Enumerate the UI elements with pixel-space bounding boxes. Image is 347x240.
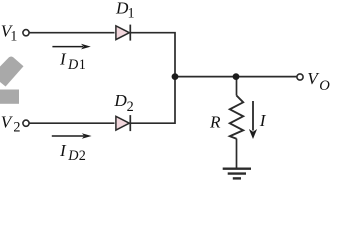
svg-text:1: 1: [10, 28, 17, 44]
svg-text:R: R: [209, 113, 221, 132]
svg-text:I: I: [259, 111, 267, 130]
svg-text:I: I: [59, 141, 67, 160]
svg-text:2: 2: [79, 148, 86, 164]
svg-text:D: D: [67, 148, 79, 164]
svg-text:I: I: [59, 50, 67, 69]
svg-text:1: 1: [79, 57, 86, 73]
svg-text:2: 2: [127, 99, 134, 115]
svg-text:1: 1: [128, 5, 135, 21]
svg-text:O: O: [319, 78, 330, 94]
svg-text:2: 2: [13, 119, 20, 135]
svg-text:D: D: [113, 91, 127, 110]
svg-text:V: V: [1, 112, 14, 131]
svg-text:D: D: [67, 57, 79, 73]
